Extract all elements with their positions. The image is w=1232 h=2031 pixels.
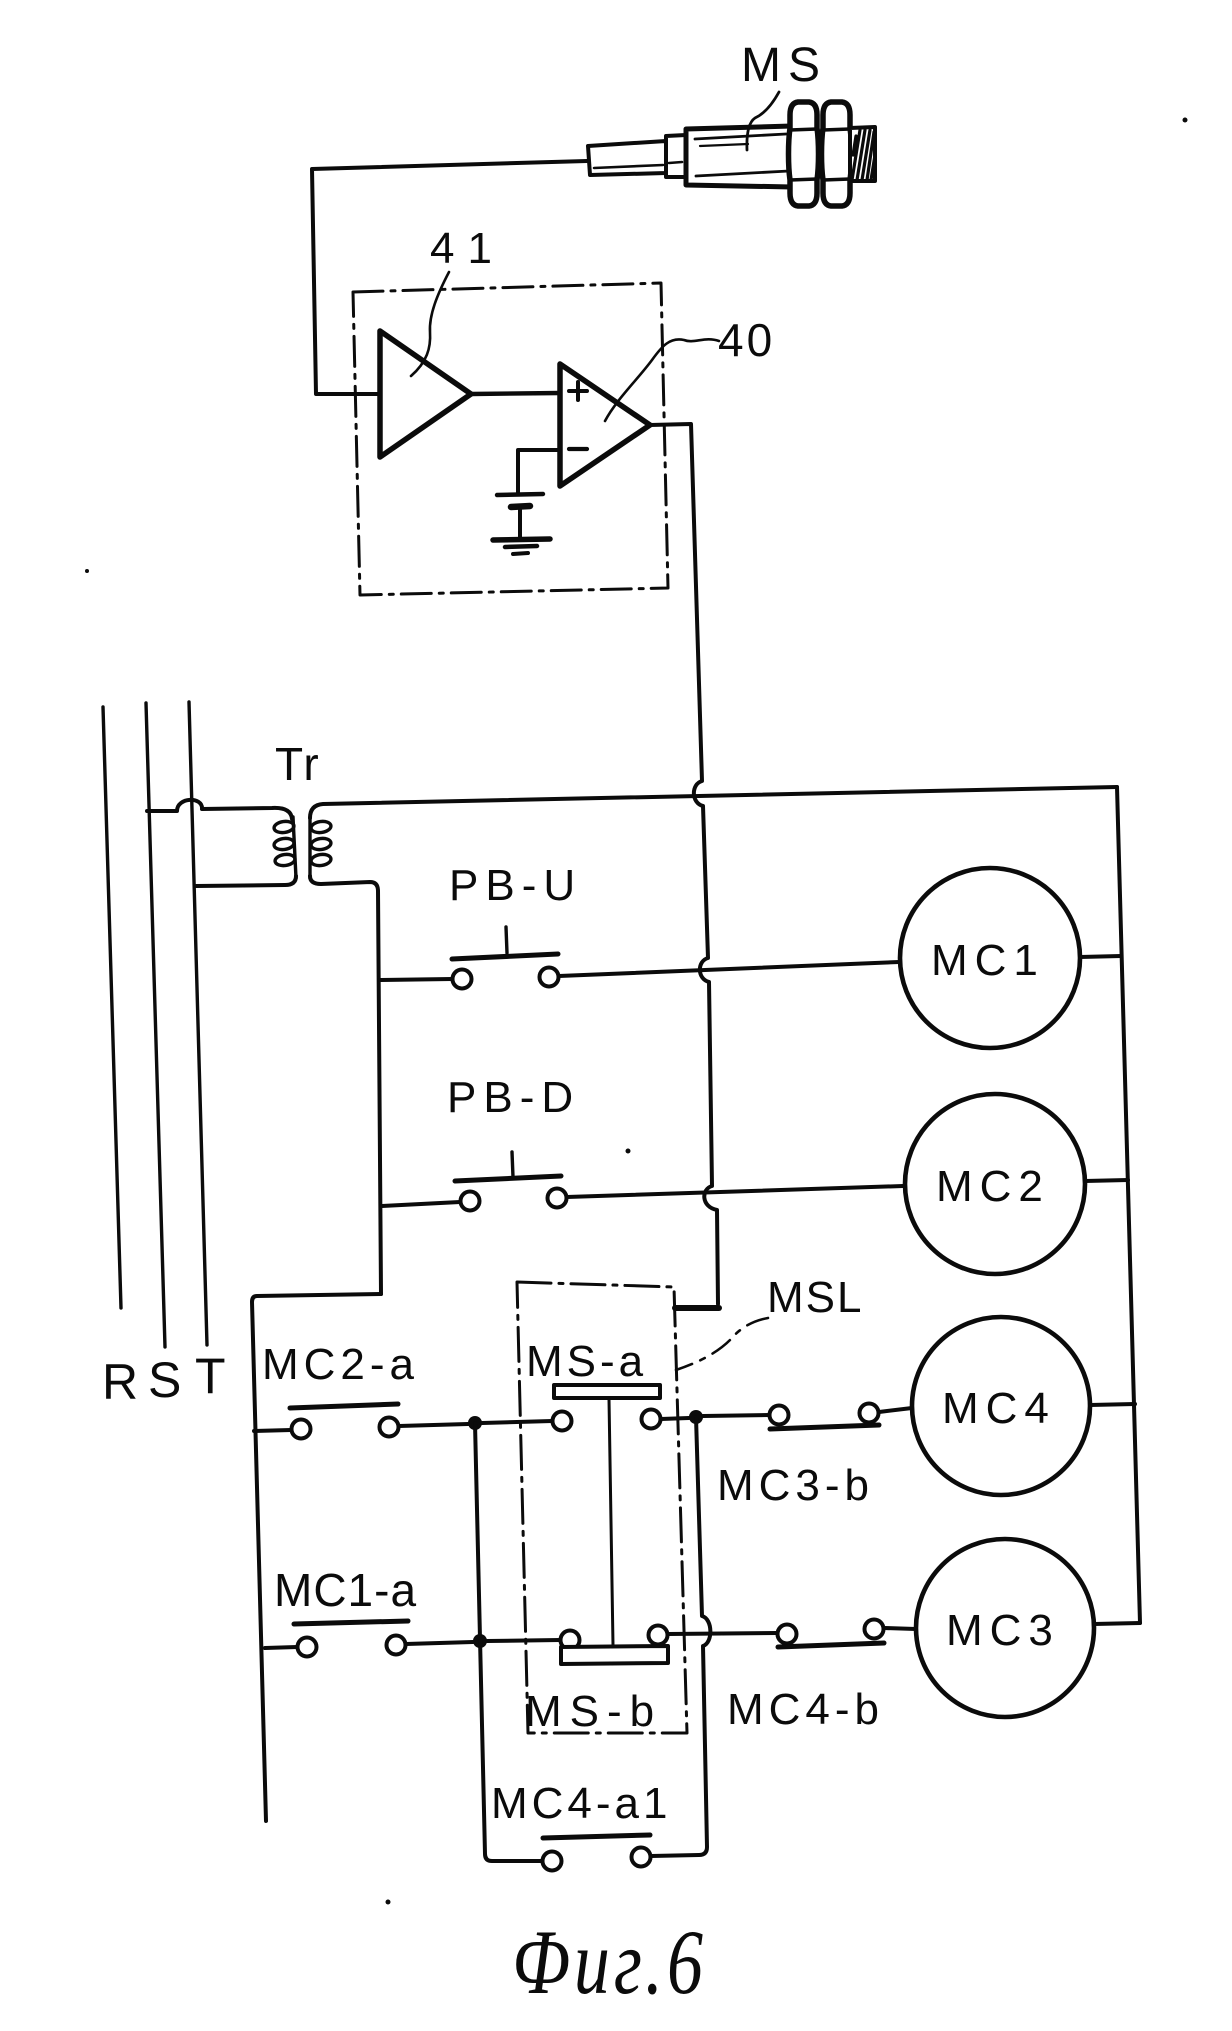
cell to ground stem xyxy=(518,508,522,538)
op-amp output wire down to ladder (with crossover hops) xyxy=(650,424,718,1304)
wire feeder to PB-D xyxy=(382,1202,460,1206)
threaded tip outline xyxy=(850,127,875,181)
contactor coil MC4 xyxy=(912,1317,1090,1495)
svg-text:Фиг.6: Фиг.6 xyxy=(512,1911,707,2014)
speck xyxy=(1183,118,1188,123)
right bus xyxy=(1117,787,1140,1623)
body inner line top xyxy=(695,134,786,139)
wire junction to MS-b xyxy=(487,1640,560,1641)
supply line T xyxy=(189,702,207,1345)
svg-text:PB-D: PB-D xyxy=(447,1073,580,1122)
sensor body cylinder xyxy=(686,126,792,187)
speck xyxy=(85,569,89,573)
speck xyxy=(626,1149,631,1154)
contact MC4-a1 xyxy=(543,1835,651,1871)
wire minus input to reference xyxy=(518,450,560,493)
svg-text:S: S xyxy=(148,1352,181,1408)
svg-text:MC4-b: MC4-b xyxy=(727,1685,884,1734)
svg-text:MC3: MC3 xyxy=(946,1606,1060,1655)
supply line R xyxy=(103,707,121,1308)
amplifier unit 40 dash-dot enclosure xyxy=(353,283,668,595)
wire 41 output to 40 input xyxy=(471,393,560,394)
push button PB-D xyxy=(455,1152,567,1211)
MS-a actuator plate xyxy=(554,1385,660,1398)
svg-text:MC2-a: MC2-a xyxy=(262,1340,419,1389)
contactor coil MC2 xyxy=(905,1094,1085,1274)
wire MC3-b to MC4 xyxy=(879,1408,912,1412)
wire MC1 to right bus xyxy=(1080,956,1121,957)
wire primary to T line xyxy=(196,876,296,886)
secondary bottom wire and down feeder xyxy=(310,876,381,1294)
wire MS-b to MC4-b xyxy=(668,1633,777,1634)
svg-text:MC1: MC1 xyxy=(931,936,1045,985)
comparator op-amp 40 (triangle) xyxy=(560,364,650,486)
transformer Tr secondary winding xyxy=(310,817,332,878)
vertical link junction to MC4-a1 right (hop over MS-b row) xyxy=(651,1417,710,1856)
contact MC3-b (normally closed) xyxy=(770,1404,880,1430)
caption Fig.6 xyxy=(512,1911,707,2014)
svg-text:MS-b: MS-b xyxy=(525,1687,662,1736)
wire MS-a to junction xyxy=(661,1418,689,1419)
proximity switch MS (sensor body) xyxy=(312,92,875,394)
leader line for 40 xyxy=(605,339,719,421)
wire junction to MS-a xyxy=(482,1421,552,1423)
wire MC1-a to junction xyxy=(406,1642,473,1644)
secondary top wire to right bus xyxy=(310,787,1117,818)
push button PB-U xyxy=(452,927,559,989)
wire MC4-b to MC3 xyxy=(884,1628,916,1629)
wire PB-U to MC1 xyxy=(559,962,899,976)
wire left branch to MC1-a xyxy=(265,1647,297,1648)
cable inner line xyxy=(594,165,663,168)
contact MC2-a xyxy=(290,1404,399,1439)
svg-text:Tr: Tr xyxy=(275,738,321,790)
op-amp minus input mark xyxy=(569,447,587,451)
ground xyxy=(493,539,550,554)
wire MC2-a to junction xyxy=(399,1424,468,1426)
body short inner stroke xyxy=(700,144,748,146)
svg-text:MC2: MC2 xyxy=(936,1162,1050,1211)
MSL dash-dot enclosure xyxy=(517,1282,687,1733)
leader line for 41 xyxy=(411,272,449,376)
MS-b actuator plate xyxy=(561,1646,668,1664)
vertical link through junctions to MC4-a1 xyxy=(475,1423,542,1861)
svg-text:MC1-a: MC1-a xyxy=(274,1564,417,1616)
svg-text:MS-a: MS-a xyxy=(526,1337,647,1386)
reference cell short plate xyxy=(511,506,530,507)
neck tick xyxy=(669,162,682,163)
svg-text:MC3-b: MC3-b xyxy=(717,1461,874,1510)
svg-text:T: T xyxy=(195,1348,226,1404)
hex nut 2 xyxy=(822,102,852,206)
leader line for MS xyxy=(747,92,779,150)
wire junction to MC3-b xyxy=(703,1415,769,1416)
feeder corner to left branch xyxy=(252,1294,381,1821)
svg-text:MS: MS xyxy=(741,39,827,92)
contact MS-b xyxy=(561,1626,668,1650)
wire S to transformer primary (hop over T) xyxy=(147,800,292,819)
speck xyxy=(386,1900,391,1905)
contactor coil MC1 xyxy=(900,868,1080,1048)
thread hatch lines xyxy=(852,130,875,180)
wire from sensor cable to amplifier input xyxy=(312,161,587,394)
wire PB-D to MC2 xyxy=(567,1186,903,1197)
svg-text:R: R xyxy=(102,1354,138,1410)
buffer amplifier 41 (triangle) xyxy=(380,331,471,457)
svg-text:41: 41 xyxy=(430,224,505,273)
op-amp plus input mark xyxy=(569,382,587,400)
svg-text:MSL: MSL xyxy=(767,1273,863,1322)
transformer Tr primary winding xyxy=(273,817,296,878)
contactor coil MC3 xyxy=(916,1539,1094,1717)
svg-text:MC4: MC4 xyxy=(942,1384,1056,1433)
junction node xyxy=(689,1410,703,1424)
wire left branch to MC2-a xyxy=(254,1430,291,1431)
svg-text:40: 40 xyxy=(718,314,775,366)
supply line S xyxy=(146,703,165,1347)
wire feeder to PB-U xyxy=(379,979,452,980)
leader line for MSL xyxy=(676,1318,768,1370)
junction node xyxy=(473,1634,487,1648)
sensor neck xyxy=(666,135,686,177)
hex nut 1 xyxy=(789,102,819,206)
sensor cable xyxy=(588,141,666,175)
reference cell long plate xyxy=(497,494,543,495)
junction node xyxy=(468,1416,482,1430)
wire MC2 to right bus xyxy=(1085,1180,1128,1181)
body inner line bottom xyxy=(696,171,789,176)
MS mechanical link stem xyxy=(609,1399,613,1645)
nut 1 facet lines xyxy=(790,129,817,180)
contact MS-a xyxy=(553,1410,661,1431)
nut 2 facet lines xyxy=(823,129,850,180)
wire MC4 to right bus xyxy=(1090,1404,1135,1405)
contact MC4-b (normally closed) xyxy=(778,1620,885,1648)
wire MC3 to right bus xyxy=(1094,1623,1140,1624)
wire stub joining MSL box edge xyxy=(675,1305,719,1311)
svg-text:PB-U: PB-U xyxy=(449,861,582,910)
svg-text:MC4-a1: MC4-a1 xyxy=(491,1779,672,1828)
contact MC1-a xyxy=(294,1621,408,1657)
